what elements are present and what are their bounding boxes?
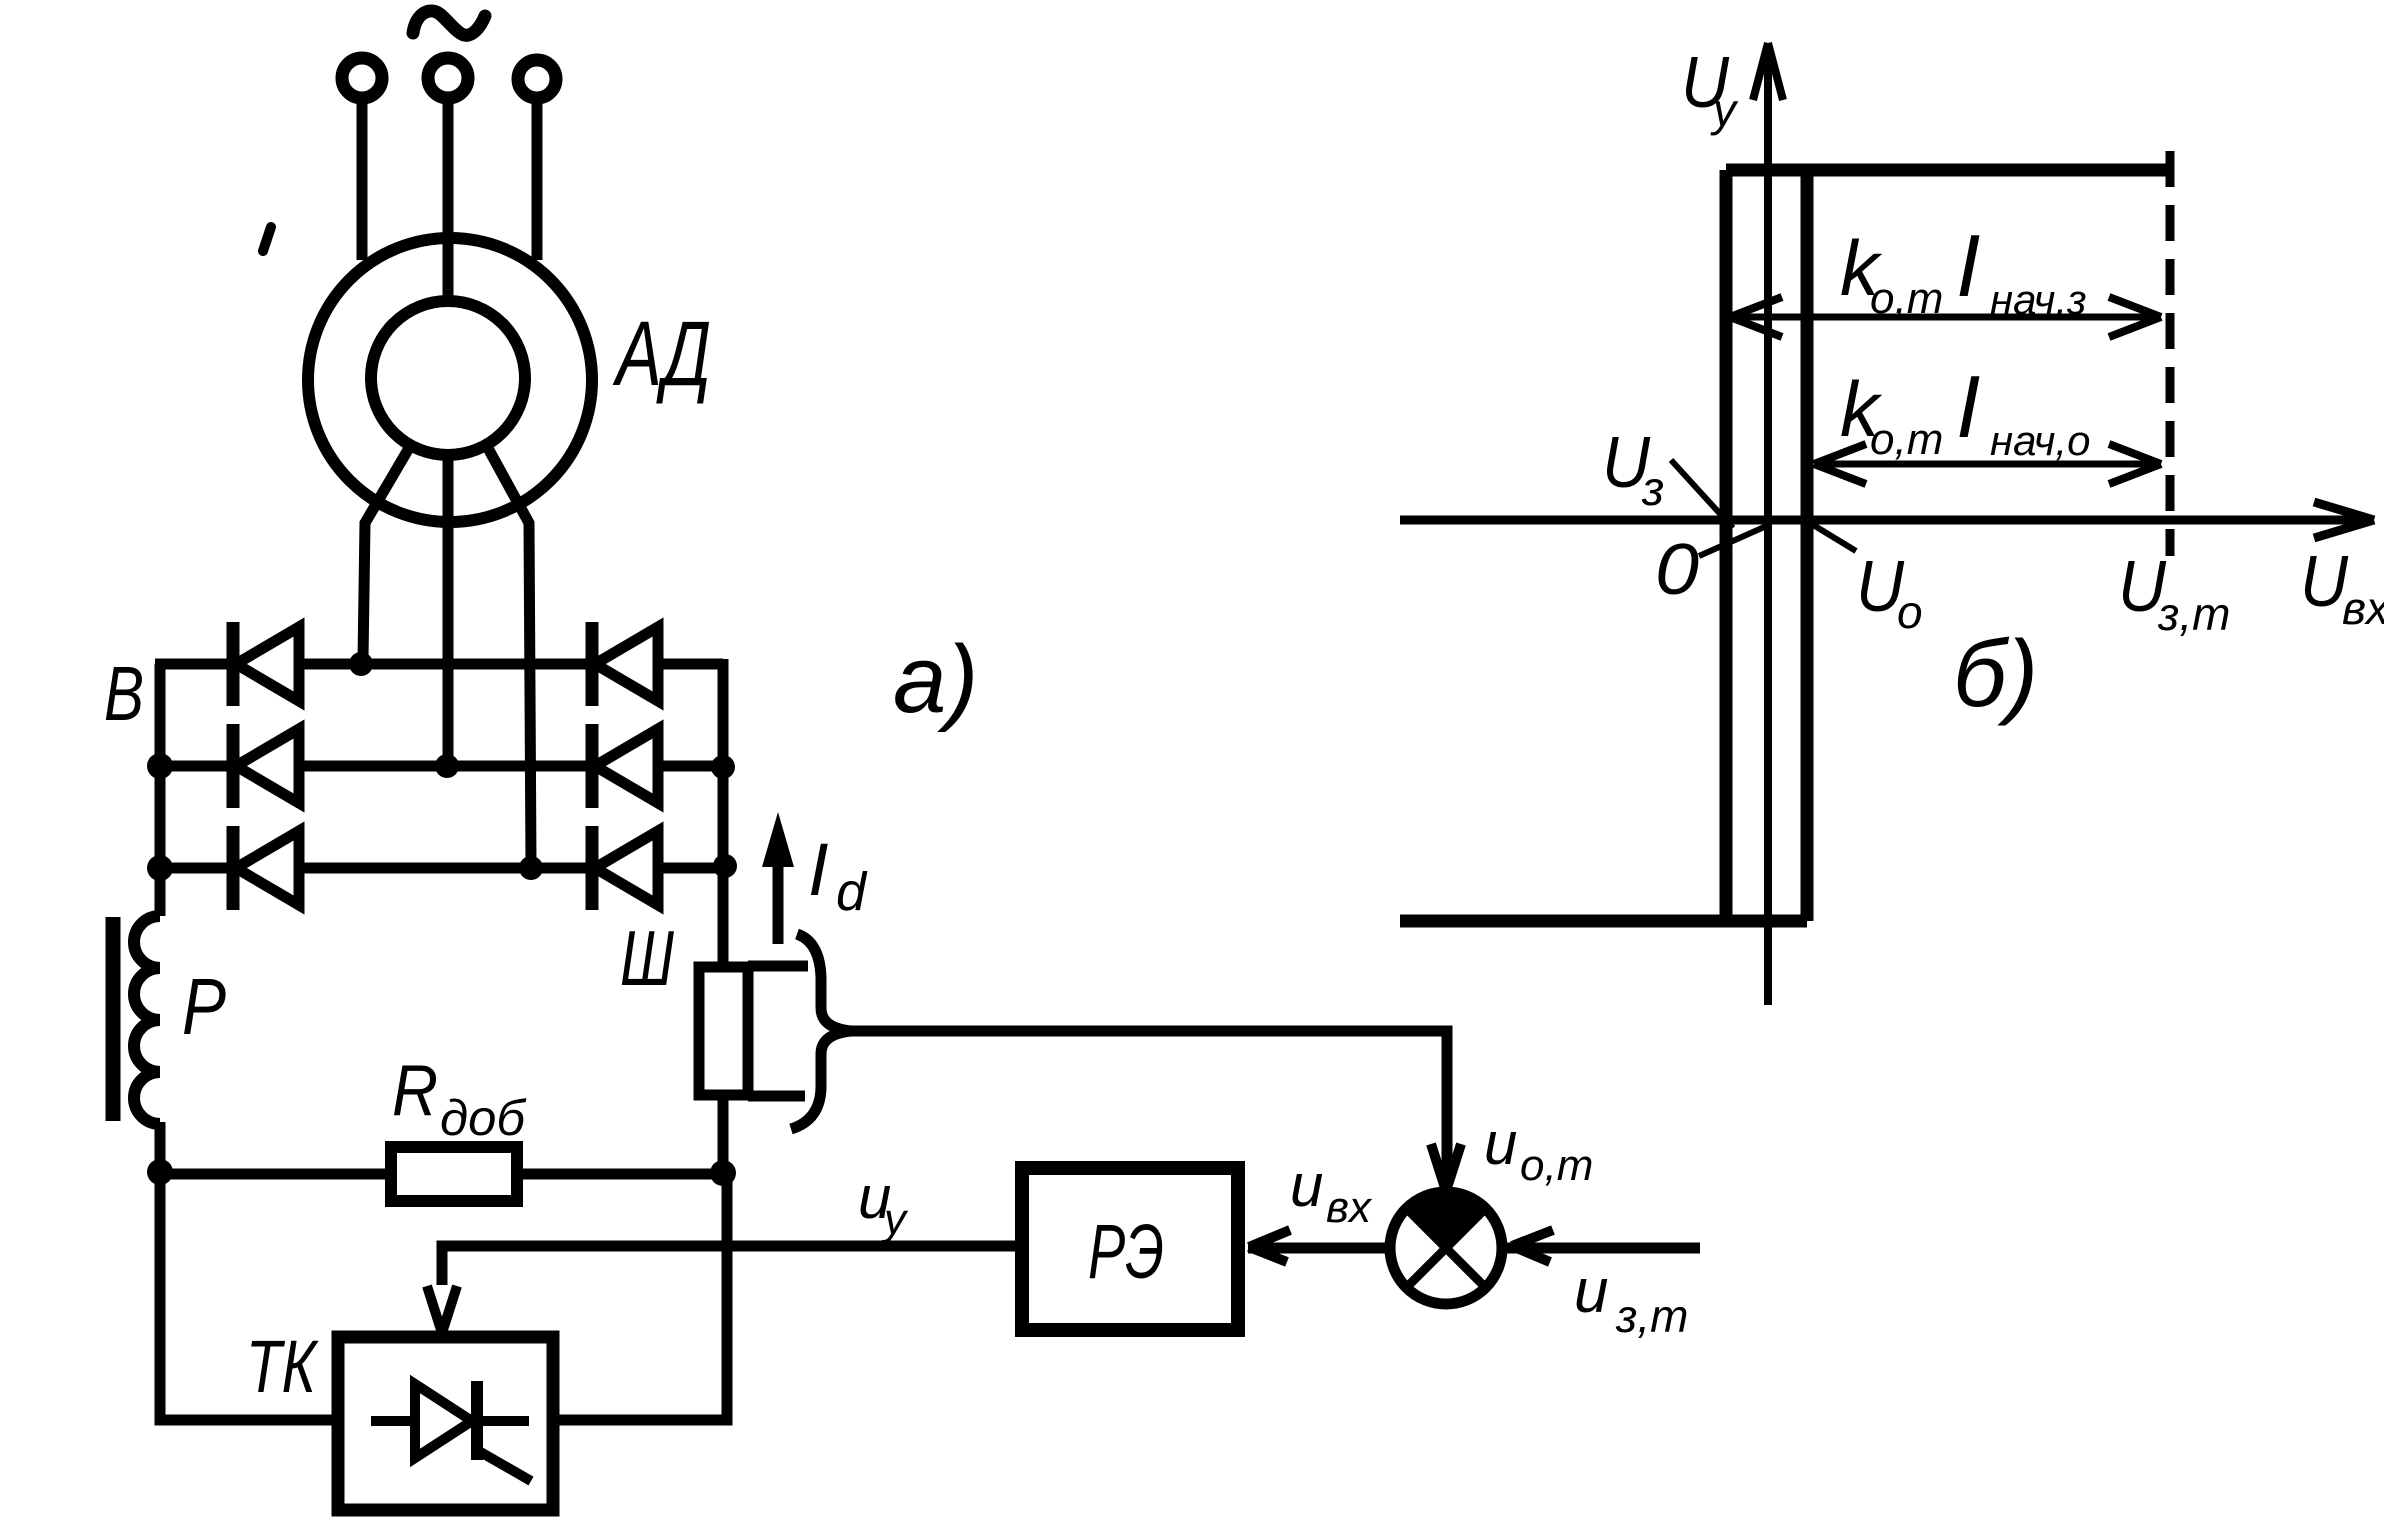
svg-text:б): б)	[1953, 621, 2038, 727]
wire reactor to node	[155, 1122, 166, 1420]
terminal 1	[342, 58, 382, 98]
wire shunt below	[718, 1095, 729, 1174]
svg-text:I: I	[1956, 357, 1980, 456]
svg-text:з,т: з,т	[2157, 588, 2230, 640]
svg-text:доб: доб	[440, 1090, 527, 1146]
wire uzt input	[1504, 1243, 1700, 1254]
motor lead middle	[443, 457, 454, 762]
shunt Sh body	[699, 967, 748, 1095]
svg-text:нач,о: нач,о	[1990, 417, 2090, 464]
bridge right bus wire	[718, 659, 729, 968]
leader O	[1699, 524, 1771, 556]
wire Rdob to right bus	[517, 1169, 725, 1180]
wire phase 1	[357, 98, 368, 260]
wire node to Rdob	[160, 1169, 392, 1180]
bridge left bus wire	[155, 664, 166, 916]
terminal 2	[428, 58, 468, 98]
X axis Uvx	[1400, 502, 2374, 538]
svg-text:Ш: Ш	[620, 914, 674, 1002]
relay characteristic top line	[1726, 164, 2170, 177]
svg-text:з: з	[1641, 463, 1664, 516]
svg-text:I: I	[808, 828, 829, 911]
svg-text:В: В	[104, 651, 144, 737]
svg-text:и: и	[1484, 1110, 1517, 1177]
node row3 phase	[519, 856, 543, 880]
reactor P core bar	[106, 917, 121, 1121]
AC supply symbol ~	[413, 11, 485, 35]
arrow uzt	[1512, 1230, 1553, 1262]
relay characteristic bottom line	[1400, 915, 1807, 928]
svg-text:и: и	[1574, 1257, 1608, 1326]
terminal 3	[518, 60, 556, 98]
svg-text:вх: вх	[2342, 582, 2384, 634]
motor lead right	[489, 450, 531, 864]
leader Uz	[1671, 460, 1733, 528]
wire shunt tap to summer	[851, 1031, 1447, 1180]
wire TK to right bus	[553, 1172, 727, 1420]
node row2 right bus	[711, 755, 735, 779]
arrow uy down	[427, 1286, 457, 1333]
svg-text:о: о	[1897, 586, 1923, 638]
wire uy RE to TK	[442, 1246, 1018, 1285]
arrow uot down	[1431, 1144, 1461, 1191]
node reactor tap	[147, 1159, 173, 1185]
node row2 phase	[435, 754, 459, 778]
shunt bottom tap wire	[748, 1091, 805, 1102]
node row3 left bus	[147, 855, 173, 881]
wire summer to RE	[1248, 1243, 1390, 1254]
svg-text:вх: вх	[1326, 1183, 1373, 1232]
dimension arrow kot Inach,z	[1730, 297, 2161, 337]
motor AD stator circle	[308, 238, 592, 522]
svg-text:у: у	[1710, 84, 1739, 136]
diode VD3	[233, 826, 299, 910]
leader Uo	[1810, 523, 1856, 551]
thyristor block TK box	[338, 1337, 553, 1510]
current arrow Id	[762, 812, 794, 944]
diode VD6	[592, 826, 658, 910]
svg-text:о,т: о,т	[1520, 1141, 1593, 1190]
bridge row 1 wire	[155, 659, 723, 670]
relay characteristic right vertical	[1801, 172, 1814, 921]
svg-text:d: d	[836, 862, 868, 922]
bridge row 2 wire	[160, 761, 723, 772]
svg-text:АД: АД	[612, 303, 711, 405]
diode VD4	[592, 622, 658, 706]
svg-text:о,т: о,т	[1870, 415, 1943, 464]
svg-text:Р: Р	[182, 962, 226, 1051]
svg-text:а): а)	[893, 626, 978, 733]
svg-text:нач,з: нач,з	[1990, 276, 2087, 323]
svg-text:у: у	[881, 1195, 909, 1244]
reactor P winding	[134, 916, 160, 1124]
motor lead left	[363, 448, 409, 660]
dimension arrow kot Inach,o	[1814, 444, 2161, 484]
diode VD2	[233, 724, 299, 808]
resistor Rdob	[391, 1147, 517, 1201]
wire left bus to TK	[160, 1170, 338, 1420]
diode VD5	[592, 724, 658, 808]
diode VD1	[233, 622, 299, 706]
svg-text:0: 0	[1655, 530, 1699, 610]
bridge row 3 wire	[160, 863, 725, 874]
shunt brace	[791, 934, 851, 1129]
relay characteristic left vertical	[1720, 170, 1733, 921]
Y axis Uy	[1753, 43, 1783, 1005]
svg-text:и: и	[1290, 1152, 1323, 1219]
node row3 right bus	[713, 854, 737, 878]
svg-text:I: I	[1956, 216, 1980, 315]
thyristor symbol	[371, 1381, 531, 1481]
svg-text:о,т: о,т	[1870, 274, 1943, 323]
svg-text:з,т: з,т	[1615, 1290, 1688, 1342]
node row2 left bus	[147, 753, 173, 779]
relay element RE box	[1022, 1168, 1238, 1330]
node right bus tap	[710, 1160, 736, 1186]
summing junction	[1390, 1191, 1502, 1304]
svg-text:РЭ: РЭ	[1088, 1209, 1164, 1295]
shunt top tap wire	[748, 961, 808, 972]
dashed line Uzt	[2166, 151, 2175, 556]
node row1 phase	[349, 652, 373, 676]
svg-text:ТК: ТК	[246, 1325, 319, 1408]
arrow uvx	[1249, 1230, 1290, 1262]
wire phase 3	[532, 98, 543, 260]
svg-text:R: R	[392, 1051, 438, 1131]
tick mark near motor	[263, 227, 271, 251]
motor AD rotor circle	[371, 301, 525, 455]
wire phase 2	[443, 98, 454, 301]
